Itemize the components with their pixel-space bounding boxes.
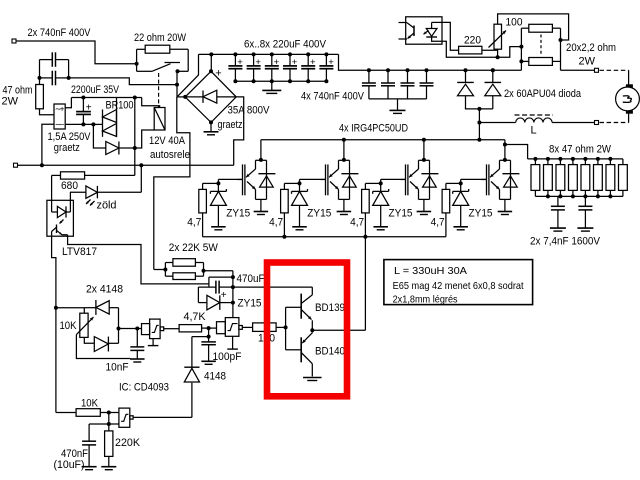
- resistor R6e 47ohm: [581, 159, 590, 197]
- resistor R6g 47ohm: [606, 159, 615, 197]
- opto U2 LED: [426, 22, 437, 37]
- label ZY15 (5): [238, 297, 262, 309]
- wire: 12V rail: [71, 97, 141, 99]
- node: R9 out junction: [207, 326, 211, 330]
- svg-text:ZY15: ZY15: [469, 207, 493, 219]
- svg-text:35A 800V: 35A 800V: [228, 105, 271, 117]
- ground: R12: [101, 467, 116, 470]
- wire: base tie: [286, 307, 302, 350]
- label 4148: [204, 371, 226, 383]
- svg-text:4,7: 4,7: [187, 216, 201, 228]
- diode D1 BR100 output: [93, 124, 134, 154]
- svg-text:2x1,8mm légrés: 2x1,8mm légrés: [393, 294, 458, 306]
- svg-text:2x 4148: 2x 4148: [86, 284, 123, 296]
- svg-text:autosrele: autosrele: [150, 149, 190, 161]
- node: gate3 in upper: [107, 411, 111, 415]
- svg-text:ZY15: ZY15: [307, 207, 331, 219]
- label 2x 740nF 400V: [28, 27, 92, 39]
- node: gate net 4 junction: [459, 181, 463, 185]
- label ZY15 (1): [226, 207, 250, 219]
- svg-text:BD140: BD140: [315, 346, 345, 358]
- wire: C1 frame verticals: [40, 60, 69, 78]
- capacitor C3d 220uF 400V: [283, 52, 298, 83]
- wire: 220uF rail: [199, 53, 339, 55]
- node: gate net 2 junction: [298, 181, 302, 185]
- label 4,7 (3): [350, 216, 364, 228]
- svg-text:+: +: [86, 103, 92, 114]
- resistor R3 220: [459, 46, 482, 54]
- label 6x..8x 220uF 400V: [244, 39, 327, 51]
- ground: C9: [82, 467, 97, 470]
- capacitor C3c 220uF 400V: [265, 52, 280, 83]
- ground: ZD4: [453, 227, 468, 230]
- wire: opto LED anode out: [432, 21, 442, 23]
- gate U3a CD4093: [142, 319, 164, 339]
- optocoupler U1 LTV817 box: [47, 200, 74, 236]
- svg-text:BR100: BR100: [106, 100, 134, 112]
- led LD1 zold: [86, 186, 98, 198]
- svg-text:ZY15: ZY15: [238, 297, 262, 309]
- svg-text:20x2,2 ohm: 20x2,2 ohm: [566, 42, 616, 54]
- wire: snubber bottom rail: [535, 195, 623, 197]
- dashed link: relay actuator: [158, 73, 160, 107]
- wire: P1 wiper down: [76, 335, 130, 359]
- capacitor C3e 220uF 400V: [301, 52, 316, 83]
- label L = 330uH 30A: [394, 265, 467, 277]
- node: rail to Q3: [422, 138, 426, 142]
- svg-text:L: L: [531, 125, 537, 137]
- ground: 220uF bank: [262, 81, 281, 93]
- node: switch out: [176, 69, 180, 73]
- node: C1 left junction: [38, 76, 42, 80]
- node: diode junction: [477, 107, 481, 111]
- svg-text:12V 40A: 12V 40A: [149, 135, 186, 147]
- label graetz (bridge): [218, 119, 243, 131]
- wire: IGBT collector rail: [261, 140, 528, 159]
- svg-text:8x 47 ohm 2W: 8x 47 ohm 2W: [549, 144, 612, 156]
- resistor R6d 47ohm: [569, 159, 578, 197]
- label 47 ohm: [3, 85, 33, 97]
- wire: supply node vertical: [232, 271, 234, 318]
- node: gate net 1 junction: [216, 181, 220, 185]
- ground: bridge negative: [204, 122, 219, 134]
- node: rail drive feed: [363, 235, 367, 239]
- wire: gate3 inputs: [109, 413, 119, 425]
- resistor R8a 22K 5W: [173, 259, 196, 267]
- wire: emitter tap: [209, 277, 233, 287]
- svg-text:4,7: 4,7: [269, 216, 283, 228]
- svg-text:+: +: [237, 57, 243, 68]
- wire: graetz - out: [65, 123, 93, 125]
- wire: switch block bottom right: [178, 70, 189, 72]
- label bridge + mark: [215, 68, 221, 80]
- wire: R8 left bracket: [154, 263, 173, 277]
- svg-text:graetz: graetz: [54, 142, 80, 154]
- node: gate net 3 junction: [379, 181, 383, 185]
- capacitor C3f 220uF 400V: [319, 52, 334, 83]
- terminal J3 work coil high: [595, 68, 599, 72]
- svg-text:100: 100: [506, 17, 523, 29]
- svg-text:(10uF): (10uF): [54, 459, 85, 471]
- svg-text:4,7: 4,7: [431, 216, 445, 228]
- label (10uF): [54, 459, 85, 471]
- transistor Q2 IRG4PC50UD: [321, 140, 359, 200]
- svg-text:L = 330uH 30A: L = 330uH 30A: [394, 265, 467, 277]
- node: rail to Q2: [342, 138, 346, 142]
- wire: switch out down to AC1: [176, 71, 178, 97]
- rectifier BR100: [103, 110, 117, 137]
- wire: drive feed vertical: [312, 237, 365, 330]
- node: R4 left feed: [519, 45, 523, 49]
- svg-text:4,7K: 4,7K: [184, 311, 207, 323]
- svg-text:2W: 2W: [579, 56, 596, 68]
- node: LD1 rail junction: [139, 163, 143, 167]
- node: feedback tap: [207, 335, 211, 339]
- node: rail to Q4: [503, 143, 507, 147]
- wire: R2 left leg: [137, 49, 146, 71]
- label 220: [464, 35, 481, 47]
- capacitor C3a 220uF 400V: [228, 52, 243, 83]
- svg-text:+: +: [274, 57, 280, 68]
- wire: osc input: [56, 307, 84, 309]
- diode inside bridge: [185, 90, 236, 103]
- label E65 mag: [393, 280, 524, 292]
- wire: bridge + to rail: [210, 54, 212, 71]
- svg-text:220K: 220K: [115, 437, 141, 449]
- svg-text:4,7: 4,7: [350, 216, 364, 228]
- wire: gate-drive bottom rail: [203, 236, 446, 238]
- label 2W (bank): [579, 56, 596, 68]
- wire: BR100 left node: [93, 123, 102, 125]
- label graetz: [54, 142, 80, 154]
- node: switch block left: [135, 62, 139, 66]
- label 4,7 (2): [269, 216, 283, 228]
- transistor Q4 IRG4PC50UD: [482, 145, 520, 200]
- node: inductor tap: [477, 121, 481, 125]
- label IC: CD4093: [119, 382, 169, 394]
- node: osc mid: [117, 327, 121, 331]
- wire: mains bottom rail: [18, 164, 234, 166]
- label 10nF: [106, 362, 129, 374]
- svg-text:2200uF 35V: 2200uF 35V: [71, 84, 120, 96]
- node: gate1 input junction: [135, 327, 139, 331]
- node: gate3 in lower: [107, 422, 111, 426]
- nodes: snubber top junctions: [533, 157, 612, 161]
- svg-text:2x 7,4nF 1600V: 2x 7,4nF 1600V: [530, 236, 601, 248]
- svg-text:IC: CD4093: IC: CD4093: [119, 382, 169, 394]
- wire: R7 left to U1 LED: [52, 175, 61, 200]
- opto U1 phototransistor: [52, 225, 68, 237]
- label ZY15 (2): [307, 207, 331, 219]
- svg-text:BD139: BD139: [315, 302, 345, 314]
- label 100pF: [213, 351, 242, 363]
- svg-text:2W: 2W: [2, 96, 19, 108]
- wire: DC distribution vertical: [134, 98, 136, 176]
- diode D6a 60APU04: [457, 68, 474, 109]
- label 2x 22K 5W: [169, 242, 219, 254]
- node: R4 right feed: [559, 38, 563, 42]
- capacitor C8 100pF: [201, 342, 216, 361]
- label 4x 740nF 400V: [301, 91, 365, 103]
- label 2W: [2, 96, 19, 108]
- diode D3 4148 lower: [84, 337, 118, 352]
- node: rail diode feed: [477, 138, 481, 142]
- node: C2 top: [81, 96, 85, 100]
- svg-text:graetz: graetz: [218, 119, 243, 131]
- resistor R7 680: [61, 172, 85, 179]
- wire: opto LED cathode out: [432, 37, 522, 57]
- wire: BR100 right bar to 12V rail: [116, 98, 118, 110]
- node: R8 right: [202, 269, 206, 273]
- node: C2 bottom: [81, 122, 85, 126]
- svg-text:22 ohm 20W: 22 ohm 20W: [134, 32, 187, 44]
- wire: Q4 emitter: [504, 199, 506, 211]
- label 8x 47 ohm 2W: [549, 144, 612, 156]
- transistor Q3 IRG4PC50UD: [401, 140, 439, 200]
- load M work coil symbol: [616, 84, 640, 113]
- svg-text:2x 22K 5W: 2x 22K 5W: [169, 242, 219, 254]
- svg-text:470uF: 470uF: [237, 273, 265, 285]
- label 20x2,2 ohm: [566, 42, 616, 54]
- node: bridge top vertex: [209, 69, 213, 73]
- resistor bank R4 20x2,2 bottom: [529, 58, 553, 66]
- wire: R3 to pot: [482, 49, 498, 51]
- ground: C5a: [550, 228, 566, 231]
- wire: U3c out: [133, 416, 192, 418]
- diode D2 4148 upper: [84, 300, 118, 315]
- diode D4 4148: [184, 337, 199, 418]
- node: osc input junction: [54, 306, 58, 310]
- wire: inductor to work terminal: [552, 122, 594, 124]
- resistor R5c 4,7: [362, 189, 370, 236]
- node: DC out junction: [133, 146, 137, 150]
- node: rail + junction: [209, 52, 213, 56]
- ground: Q2 emitter: [337, 212, 352, 215]
- svg-text:+: +: [221, 290, 227, 301]
- wire: diode node down to collector rail: [478, 109, 480, 140]
- node: ZD5 right: [231, 301, 235, 305]
- wire: U1 emitter to supply node: [68, 236, 209, 284]
- wire: graetz + out to 12V rail: [65, 98, 71, 108]
- svg-text:ZY15: ZY15: [226, 207, 250, 219]
- wire: R8 right bracket: [195, 263, 203, 277]
- transistor Q5 BD139: [301, 287, 312, 330]
- capacitor C5a 7,4nF 1600V: [551, 196, 565, 227]
- svg-text:2x 740nF 400V: 2x 740nF 400V: [28, 27, 92, 39]
- ground: C5b: [577, 228, 593, 231]
- ground: C8: [201, 361, 216, 364]
- wire: R4 right rail: [552, 28, 560, 70]
- label 4,7 (1): [187, 216, 201, 228]
- svg-text:100pF: 100pF: [213, 351, 242, 363]
- dashed wire: to load low: [600, 114, 629, 123]
- wire: gate net 2: [284, 179, 325, 191]
- label ~ + marks: [55, 105, 65, 130]
- label 2x1,8mm legres: [393, 294, 458, 306]
- label 220K: [115, 437, 141, 449]
- wire: diode loop right: [118, 308, 120, 344]
- ground: ZD2: [292, 227, 307, 230]
- svg-text:+: +: [292, 57, 298, 68]
- transistor Q6 BD140: [301, 330, 312, 376]
- label 1,5A 250V: [48, 131, 92, 143]
- wire: Q2 emitter: [343, 199, 345, 211]
- transistor Q1 IRG4PC50UD: [238, 140, 276, 200]
- svg-text:+: +: [255, 57, 261, 68]
- ground: Q3 emitter: [417, 212, 432, 215]
- capacitor C2 2200uF 35V: [76, 98, 91, 125]
- svg-text:6x..8x 220uF 400V: 6x..8x 220uF 400V: [244, 39, 327, 51]
- bridge B1 1,5A 250V graetz box: [54, 104, 65, 129]
- node: bridge left vertex: [183, 95, 187, 99]
- opto U2 transistor: [399, 23, 415, 40]
- resistor R10 100: [253, 323, 277, 332]
- bridge B2 35A 800V diamond: [185, 71, 236, 122]
- label 4,7 (4): [431, 216, 445, 228]
- wire: pot bottom: [497, 49, 499, 57]
- ground: ZD1: [211, 227, 226, 230]
- wire: U3b out: [242, 326, 252, 328]
- wire: gate net 1: [203, 179, 243, 191]
- wire: C1 right to AC1 node: [69, 78, 177, 85]
- zener ZD1 ZY15: [210, 189, 226, 226]
- wire: 220uF bottom rail: [235, 80, 326, 82]
- wire: feedback branch: [192, 336, 209, 338]
- node: rail-graetz junction: [40, 163, 44, 167]
- svg-text:−: −: [60, 120, 65, 129]
- capacitor C7 10nF: [130, 329, 144, 359]
- zener ZD2 ZY15: [292, 189, 308, 226]
- resistor R11 10K: [56, 409, 109, 417]
- wire: opto to 220 resistor: [442, 22, 459, 50]
- wire: U1 collector down: [52, 236, 56, 412]
- label 12V 40A: [149, 135, 186, 147]
- resistor R6a 47ohm: [531, 159, 540, 197]
- wire: R9 right: [202, 327, 217, 329]
- node: rail tap: [133, 96, 137, 100]
- potentiometer P1 10K: [76, 308, 93, 338]
- svg-text:10K: 10K: [60, 320, 78, 332]
- svg-text:680: 680: [61, 180, 78, 192]
- inductor L 330uH: [515, 115, 554, 123]
- svg-text:+: +: [60, 105, 65, 114]
- capacitor C6 470uF: [198, 281, 233, 294]
- capacitor C4c 740nF 400V: [401, 68, 415, 99]
- resistor R5b 4,7: [281, 189, 289, 236]
- wire: J1 to switch block: [16, 41, 137, 64]
- svg-text:10nF: 10nF: [106, 362, 129, 374]
- wire: Q1 emitter: [260, 199, 262, 211]
- highlight: red marker box: [267, 263, 347, 397]
- wire: supply to BD139 collector: [233, 286, 312, 288]
- node: bridge bottom vertex: [209, 120, 213, 124]
- terminal J2 (mains L2): [14, 163, 18, 167]
- annotation box: [384, 260, 533, 305]
- gate U3b CD4093: [217, 318, 243, 337]
- svg-text:4x 740nF 400V: 4x 740nF 400V: [301, 91, 365, 103]
- ground: 740nF bank: [390, 99, 406, 114]
- ground: Q6 collector: [303, 378, 322, 381]
- svg-text:zöld: zöld: [97, 200, 117, 212]
- label ZY15 (4): [469, 207, 493, 219]
- resistor R9 4,7K: [179, 325, 202, 332]
- opto U1 LED: [52, 200, 71, 217]
- label LTV817: [62, 246, 97, 258]
- label 470nF: [61, 448, 88, 460]
- node: AC1 tap: [175, 83, 179, 87]
- wire: diode join: [465, 108, 493, 110]
- node: base junction: [284, 325, 288, 329]
- switch S1 relay contact: [137, 63, 180, 72]
- capacitor C4a 740nF 400V: [362, 68, 376, 99]
- resistor R6f 47ohm: [594, 159, 603, 197]
- node: R8 left: [163, 268, 167, 272]
- wire: snubber top rail: [528, 158, 623, 160]
- wire: AC1 long drop: [154, 97, 190, 270]
- svg-text:4x IRG4PC50UD: 4x IRG4PC50UD: [339, 123, 408, 135]
- svg-text:4148: 4148: [204, 371, 226, 383]
- node: pot bottom junction: [496, 55, 500, 59]
- label 100 (R10): [258, 333, 275, 345]
- capacitor C5b 7,4nF 1600V: [578, 196, 592, 227]
- wire: R4 out to work terminal: [561, 69, 595, 71]
- dashed wire: to load high: [600, 70, 629, 84]
- node: rail R5b: [282, 235, 286, 239]
- opto U1 arrow: [60, 220, 64, 224]
- optocoupler U2 box: [406, 17, 442, 44]
- svg-text:2x 60APU04 dioda: 2x 60APU04 dioda: [504, 88, 582, 100]
- opto U2 arrow: [424, 31, 429, 35]
- label 2x 60APU04 dioda: [504, 88, 582, 100]
- svg-text:+: +: [310, 57, 316, 68]
- zener ZD5 ZY15: [198, 287, 233, 310]
- wire: 12V rail to coil: [142, 98, 160, 108]
- wire: gate net 3: [365, 179, 405, 191]
- resistor bank R4 20x2,2 top: [529, 24, 553, 32]
- resistor R5d 4,7: [442, 189, 450, 236]
- terminal J1 (mains L1): [12, 39, 16, 43]
- node: C6 right: [231, 285, 235, 289]
- wire: R2 right leg: [170, 49, 188, 71]
- resistor R6h 47ohm: [619, 159, 628, 197]
- relay K1 coil: [154, 108, 165, 131]
- resistor R6b 47ohm: [544, 159, 553, 197]
- wire: mains rail to graetz box: [42, 124, 54, 165]
- wire: U1 LED cathode to LD1: [70, 192, 86, 212]
- node: BR100 left junction: [91, 122, 95, 126]
- dashed link: R4 bank: [540, 35, 542, 56]
- terminal J4 work coil low: [595, 121, 599, 125]
- label 10K (R11): [81, 398, 99, 410]
- wire: gate net 4: [446, 179, 487, 191]
- svg-text:10K: 10K: [81, 398, 99, 410]
- wire: osc mid to gate 1: [119, 328, 142, 330]
- label 470uF: [237, 273, 265, 285]
- svg-text:LTV817: LTV817: [62, 246, 97, 258]
- ground: ZD3: [373, 227, 388, 230]
- wire: rail left end to AC1 node: [177, 54, 199, 97]
- resistor R5a 4,7: [199, 189, 207, 236]
- svg-text:E65 mag 42 menet 6x0,8 sodrat: E65 mag 42 menet 6x0,8 sodrat: [393, 280, 524, 292]
- ground: C7: [130, 359, 145, 362]
- capacitor C9 470nF: [82, 424, 96, 466]
- label ZY15 (3): [389, 207, 413, 219]
- label 680: [61, 180, 78, 192]
- led LD1 arrows: [86, 200, 95, 206]
- wire: AC1 into left vertex: [177, 96, 185, 98]
- label 4x IRG4PC50UD: [339, 123, 408, 135]
- wire: bridge AC2 to mains rail: [234, 97, 244, 165]
